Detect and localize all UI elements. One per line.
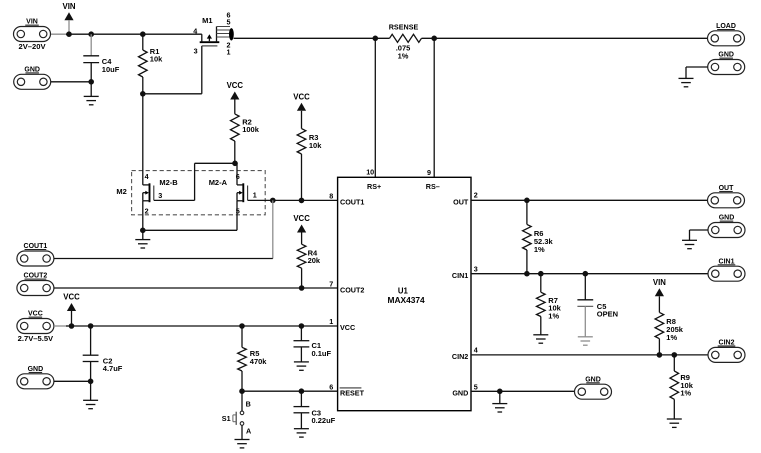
wire VCC line stub (54, 325, 68, 327)
ground (M2 sources) (142, 230, 144, 239)
terminal GND (load) (708, 60, 745, 75)
power flag VIN (R8) (655, 288, 664, 296)
wire M2-A source down-left (236, 201, 238, 231)
svg-text:VCC: VCC (293, 214, 310, 223)
svg-text:VIN: VIN (653, 278, 666, 287)
wire GND terminal to C2 (54, 380, 91, 382)
wire M2-B gate to R2 node (154, 199, 195, 201)
svg-text:4.7uF: 4.7uF (103, 364, 123, 373)
svg-text:1: 1 (253, 190, 257, 199)
node GND pin ground (497, 389, 503, 395)
svg-text:1%: 1% (680, 389, 691, 398)
svg-text:CIN1: CIN1 (452, 271, 468, 280)
wire to ground (pin5) (499, 391, 501, 403)
svg-text:10k: 10k (150, 55, 163, 64)
svg-text:5: 5 (474, 382, 478, 391)
wire VCC line (66, 325, 338, 327)
wire C4 to ground (90, 82, 92, 97)
svg-text:RS+: RS+ (367, 182, 381, 191)
ground (R7) (533, 334, 548, 336)
svg-text:S1: S1 (222, 414, 231, 423)
node R7 top (538, 271, 544, 277)
svg-text:2: 2 (474, 191, 478, 200)
svg-text:6: 6 (329, 382, 333, 391)
resistor R7 10k 1% (540, 274, 542, 293)
node R8 bottom (657, 352, 663, 358)
wire CIN2 line (471, 354, 708, 356)
wire R1 node to M2-B drain (142, 94, 144, 185)
terminal CIN1 (708, 266, 745, 281)
ground (load GND) (679, 77, 694, 79)
svg-text:VCC: VCC (293, 92, 310, 101)
resistor R9 10k 1% (673, 355, 675, 371)
wire GND terminal to C4 (51, 81, 91, 83)
ground (C1) (294, 361, 309, 363)
wire M2-A gate to COUT1 line (248, 199, 338, 201)
enclosure M2 (dashed) (132, 171, 266, 215)
node C2 top (88, 323, 94, 329)
ground (pin 5) (492, 403, 507, 405)
node R1 top (140, 31, 146, 37)
switch S1 (241, 391, 243, 411)
svg-text:1%: 1% (398, 51, 409, 60)
svg-text:A: A (246, 427, 251, 436)
svg-text:COUT1: COUT1 (340, 198, 364, 207)
transistor M2-B (N-ch MOSFET) (149, 183, 151, 202)
svg-text:3: 3 (194, 47, 198, 56)
power flag VCC (R4) (297, 225, 306, 233)
svg-text:M2: M2 (116, 187, 126, 196)
op-amp U1 MAX4374 (338, 177, 471, 410)
node RS- tap (431, 36, 437, 42)
svg-text:VCC: VCC (340, 323, 355, 332)
svg-text:RS–: RS– (426, 182, 440, 191)
transistor M1 (P-ch MOSFET) (201, 34, 203, 41)
node C4 bottom (88, 79, 94, 85)
resistor R4 20k (301, 233, 303, 245)
svg-text:CIN2: CIN2 (452, 352, 468, 361)
ground (S1) (235, 439, 250, 441)
svg-text:100k: 100k (242, 125, 260, 134)
svg-text:3: 3 (474, 264, 478, 273)
capacitor C1 0.1uF (300, 326, 302, 341)
transistor M2-A (N-ch MOSFET) (242, 183, 244, 202)
wire RS- to U1 pin 9 (433, 38, 435, 177)
svg-text:10uF: 10uF (102, 65, 120, 74)
svg-text:3: 3 (158, 191, 162, 200)
resistor R2 100k (234, 100, 236, 114)
wire RS+ to U1 pin 10 (374, 38, 376, 177)
terminal VIN (14, 27, 51, 42)
svg-text:OPEN: OPEN (597, 310, 618, 319)
node VIN flag (66, 31, 72, 37)
svg-text:1%: 1% (666, 333, 677, 342)
svg-text:OUT: OUT (453, 198, 469, 207)
node C2 bottom (88, 379, 94, 385)
svg-text:RESET: RESET (340, 388, 365, 397)
node R6 bottom (524, 271, 530, 277)
svg-text:0.1uF: 0.1uF (312, 349, 332, 358)
wire COUT2 line (54, 287, 338, 289)
node R9 top (672, 352, 678, 358)
svg-text:VCC: VCC (227, 81, 244, 90)
power flag VCC (rail) (67, 303, 76, 311)
node C5 top (583, 271, 589, 277)
node R5 bottom / S1 (239, 388, 245, 394)
resistor R5 470k (241, 326, 243, 347)
wire M1 to RSENSE (234, 37, 390, 39)
resistor R6 52.3k 1% (526, 200, 528, 224)
svg-text:VIN: VIN (63, 2, 76, 11)
terminal CIN2 (708, 347, 745, 362)
ground (C2) (83, 399, 98, 401)
svg-text:1: 1 (329, 317, 333, 326)
power flag VIN (64, 12, 73, 20)
wire node to M1 gate (143, 93, 202, 95)
svg-text:1%: 1% (548, 311, 559, 320)
svg-text:2.7V–5.5V: 2.7V–5.5V (18, 334, 54, 343)
capacitor C5 OPEN (584, 274, 586, 300)
wire GND load to ground (686, 66, 708, 68)
wire COUT1 terminal (54, 258, 273, 260)
node M2-B gate / R2 / M2-A drain (232, 161, 238, 167)
svg-text:M2-A: M2-A (209, 178, 228, 187)
svg-text:GND: GND (24, 67, 40, 74)
svg-text:9: 9 (427, 168, 431, 177)
svg-text:GND: GND (719, 215, 735, 222)
node R6 top (524, 198, 530, 204)
wire M2-B source down (142, 201, 144, 231)
wire VIN terminal to rail (51, 33, 69, 35)
resistor R1 10k (142, 34, 144, 50)
svg-text:COUT1: COUT1 (24, 243, 48, 250)
svg-text:B: B (246, 400, 251, 409)
wire GND pin line (471, 390, 575, 392)
node C1 top (299, 323, 305, 329)
svg-text:2: 2 (145, 206, 149, 215)
node R1/M1 gate/M2-B drain (140, 91, 146, 97)
svg-text:10: 10 (366, 168, 374, 177)
svg-text:4: 4 (474, 346, 478, 355)
svg-text:8: 8 (329, 192, 333, 201)
svg-text:7: 7 (329, 279, 333, 288)
wire RSENSE to LOAD (422, 37, 708, 39)
svg-text:M2-B: M2-B (159, 178, 178, 187)
svg-text:6: 6 (236, 172, 240, 181)
resistor R8 205k 1% (658, 296, 660, 312)
svg-text:20k: 20k (308, 256, 321, 265)
svg-text:470k: 470k (250, 357, 268, 366)
capacitor C3 0.22uF (300, 391, 302, 406)
wire CIN1 line (471, 273, 708, 275)
svg-text:MAX4374: MAX4374 (387, 295, 425, 305)
terminal OUT (708, 193, 745, 208)
terminal COUT2 (17, 281, 54, 296)
ground (out GND) (682, 239, 697, 241)
ground (C5) (578, 336, 593, 338)
terminal GND (VCC side) (17, 374, 54, 389)
wire C2 to ground (90, 381, 92, 400)
resistor RSENSE .075 1% (390, 34, 422, 42)
svg-text:4: 4 (145, 172, 149, 181)
svg-text:VCC: VCC (63, 293, 80, 302)
node C3 top (299, 388, 305, 394)
ground (C4) (84, 95, 99, 97)
resistor R3 10k (301, 111, 303, 129)
wire S1 to ground (241, 425, 243, 439)
wire R2 node to M2-A drain (236, 163, 238, 185)
node R5 top (239, 323, 245, 329)
node RS+ tap (373, 36, 379, 42)
power flag VCC (R2) (230, 92, 239, 100)
svg-text:COUT2: COUT2 (340, 285, 364, 294)
terminal COUT1 (17, 251, 54, 266)
wire COUT1 riser (272, 200, 274, 258)
node M2 sources (140, 228, 146, 234)
svg-text:4: 4 (193, 26, 197, 35)
svg-text:RSENSE: RSENSE (389, 23, 419, 32)
svg-text:1: 1 (227, 47, 231, 56)
node R3 / COUT1 line (299, 198, 305, 204)
svg-text:5: 5 (227, 18, 231, 27)
terminal GND (out) (708, 223, 745, 238)
node VCC flag (69, 323, 75, 329)
node C4 top (88, 31, 94, 37)
node R4 / COUT2 line (299, 285, 305, 291)
wire VIN flag stem (68, 20, 70, 34)
svg-text:0.22uF: 0.22uF (312, 416, 336, 425)
wire RESET line (242, 390, 338, 392)
terminal VCC (17, 319, 54, 334)
terminal GND (input) (14, 74, 51, 89)
capacitor C2 4.7uF (90, 326, 92, 355)
ground (R9) (667, 418, 682, 420)
svg-text:GND: GND (452, 388, 468, 397)
power flag VCC (R3) (297, 103, 306, 111)
svg-text:1%: 1% (534, 245, 545, 254)
wire GND out to ground (690, 229, 709, 231)
svg-text:M1: M1 (202, 16, 212, 25)
ground (C3) (294, 428, 309, 430)
terminal GND (signal) (575, 384, 612, 399)
svg-text:2V–20V: 2V–20V (18, 42, 46, 51)
wire OUT line (471, 199, 708, 201)
svg-text:U1: U1 (398, 286, 409, 295)
wire VIN rail (66, 33, 202, 35)
capacitor C4 (90, 34, 92, 56)
node COUT1 riser (270, 198, 276, 204)
terminal LOAD (708, 31, 745, 46)
svg-text:10k: 10k (309, 141, 322, 150)
wire VCC flag stem (71, 311, 73, 326)
